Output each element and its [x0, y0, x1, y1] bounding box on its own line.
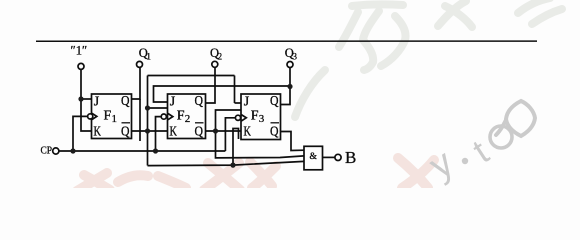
svg-text:K: K	[170, 125, 178, 140]
svg-text:&: &	[310, 152, 318, 162]
svg-text:CP: CP	[41, 145, 53, 157]
svg-text:B: B	[345, 148, 356, 167]
svg-text:F: F	[251, 109, 259, 124]
svg-text:1: 1	[112, 113, 118, 125]
svg-text:J: J	[244, 95, 250, 110]
svg-text:K: K	[94, 125, 102, 140]
svg-text:3: 3	[292, 53, 297, 63]
svg-text:F: F	[177, 109, 185, 124]
svg-text:Q: Q	[270, 94, 279, 109]
svg-text:″1″: ″1″	[71, 44, 88, 58]
svg-text:1: 1	[146, 53, 151, 63]
svg-text:Q: Q	[195, 125, 204, 140]
svg-text:F: F	[104, 109, 112, 124]
svg-text:3: 3	[259, 113, 265, 125]
svg-text:K: K	[244, 125, 252, 140]
svg-text:Q: Q	[270, 125, 279, 140]
svg-text:Q: Q	[121, 94, 130, 109]
svg-text:2: 2	[185, 113, 191, 125]
svg-text:J: J	[170, 95, 176, 110]
svg-text:J: J	[94, 95, 100, 110]
svg-text:Q: Q	[121, 125, 130, 140]
svg-text:Q: Q	[195, 94, 204, 109]
svg-text:2: 2	[217, 53, 222, 63]
